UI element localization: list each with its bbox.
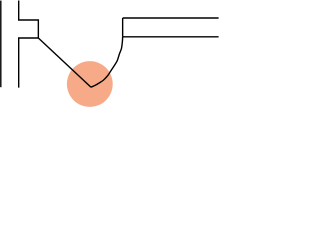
wire fork top: [123, 17, 219, 19]
wire fork vertical: [122, 18, 124, 37]
wire fork bottom: [123, 36, 219, 38]
node highlight circle: [67, 61, 113, 107]
wire diagonal: [38, 38, 91, 87]
wire pulse top: [19, 1, 39, 38]
wire left vertical: [0, 1, 2, 88]
wire rising curve: [91, 37, 123, 87]
wire pulse bottom: [19, 38, 39, 88]
